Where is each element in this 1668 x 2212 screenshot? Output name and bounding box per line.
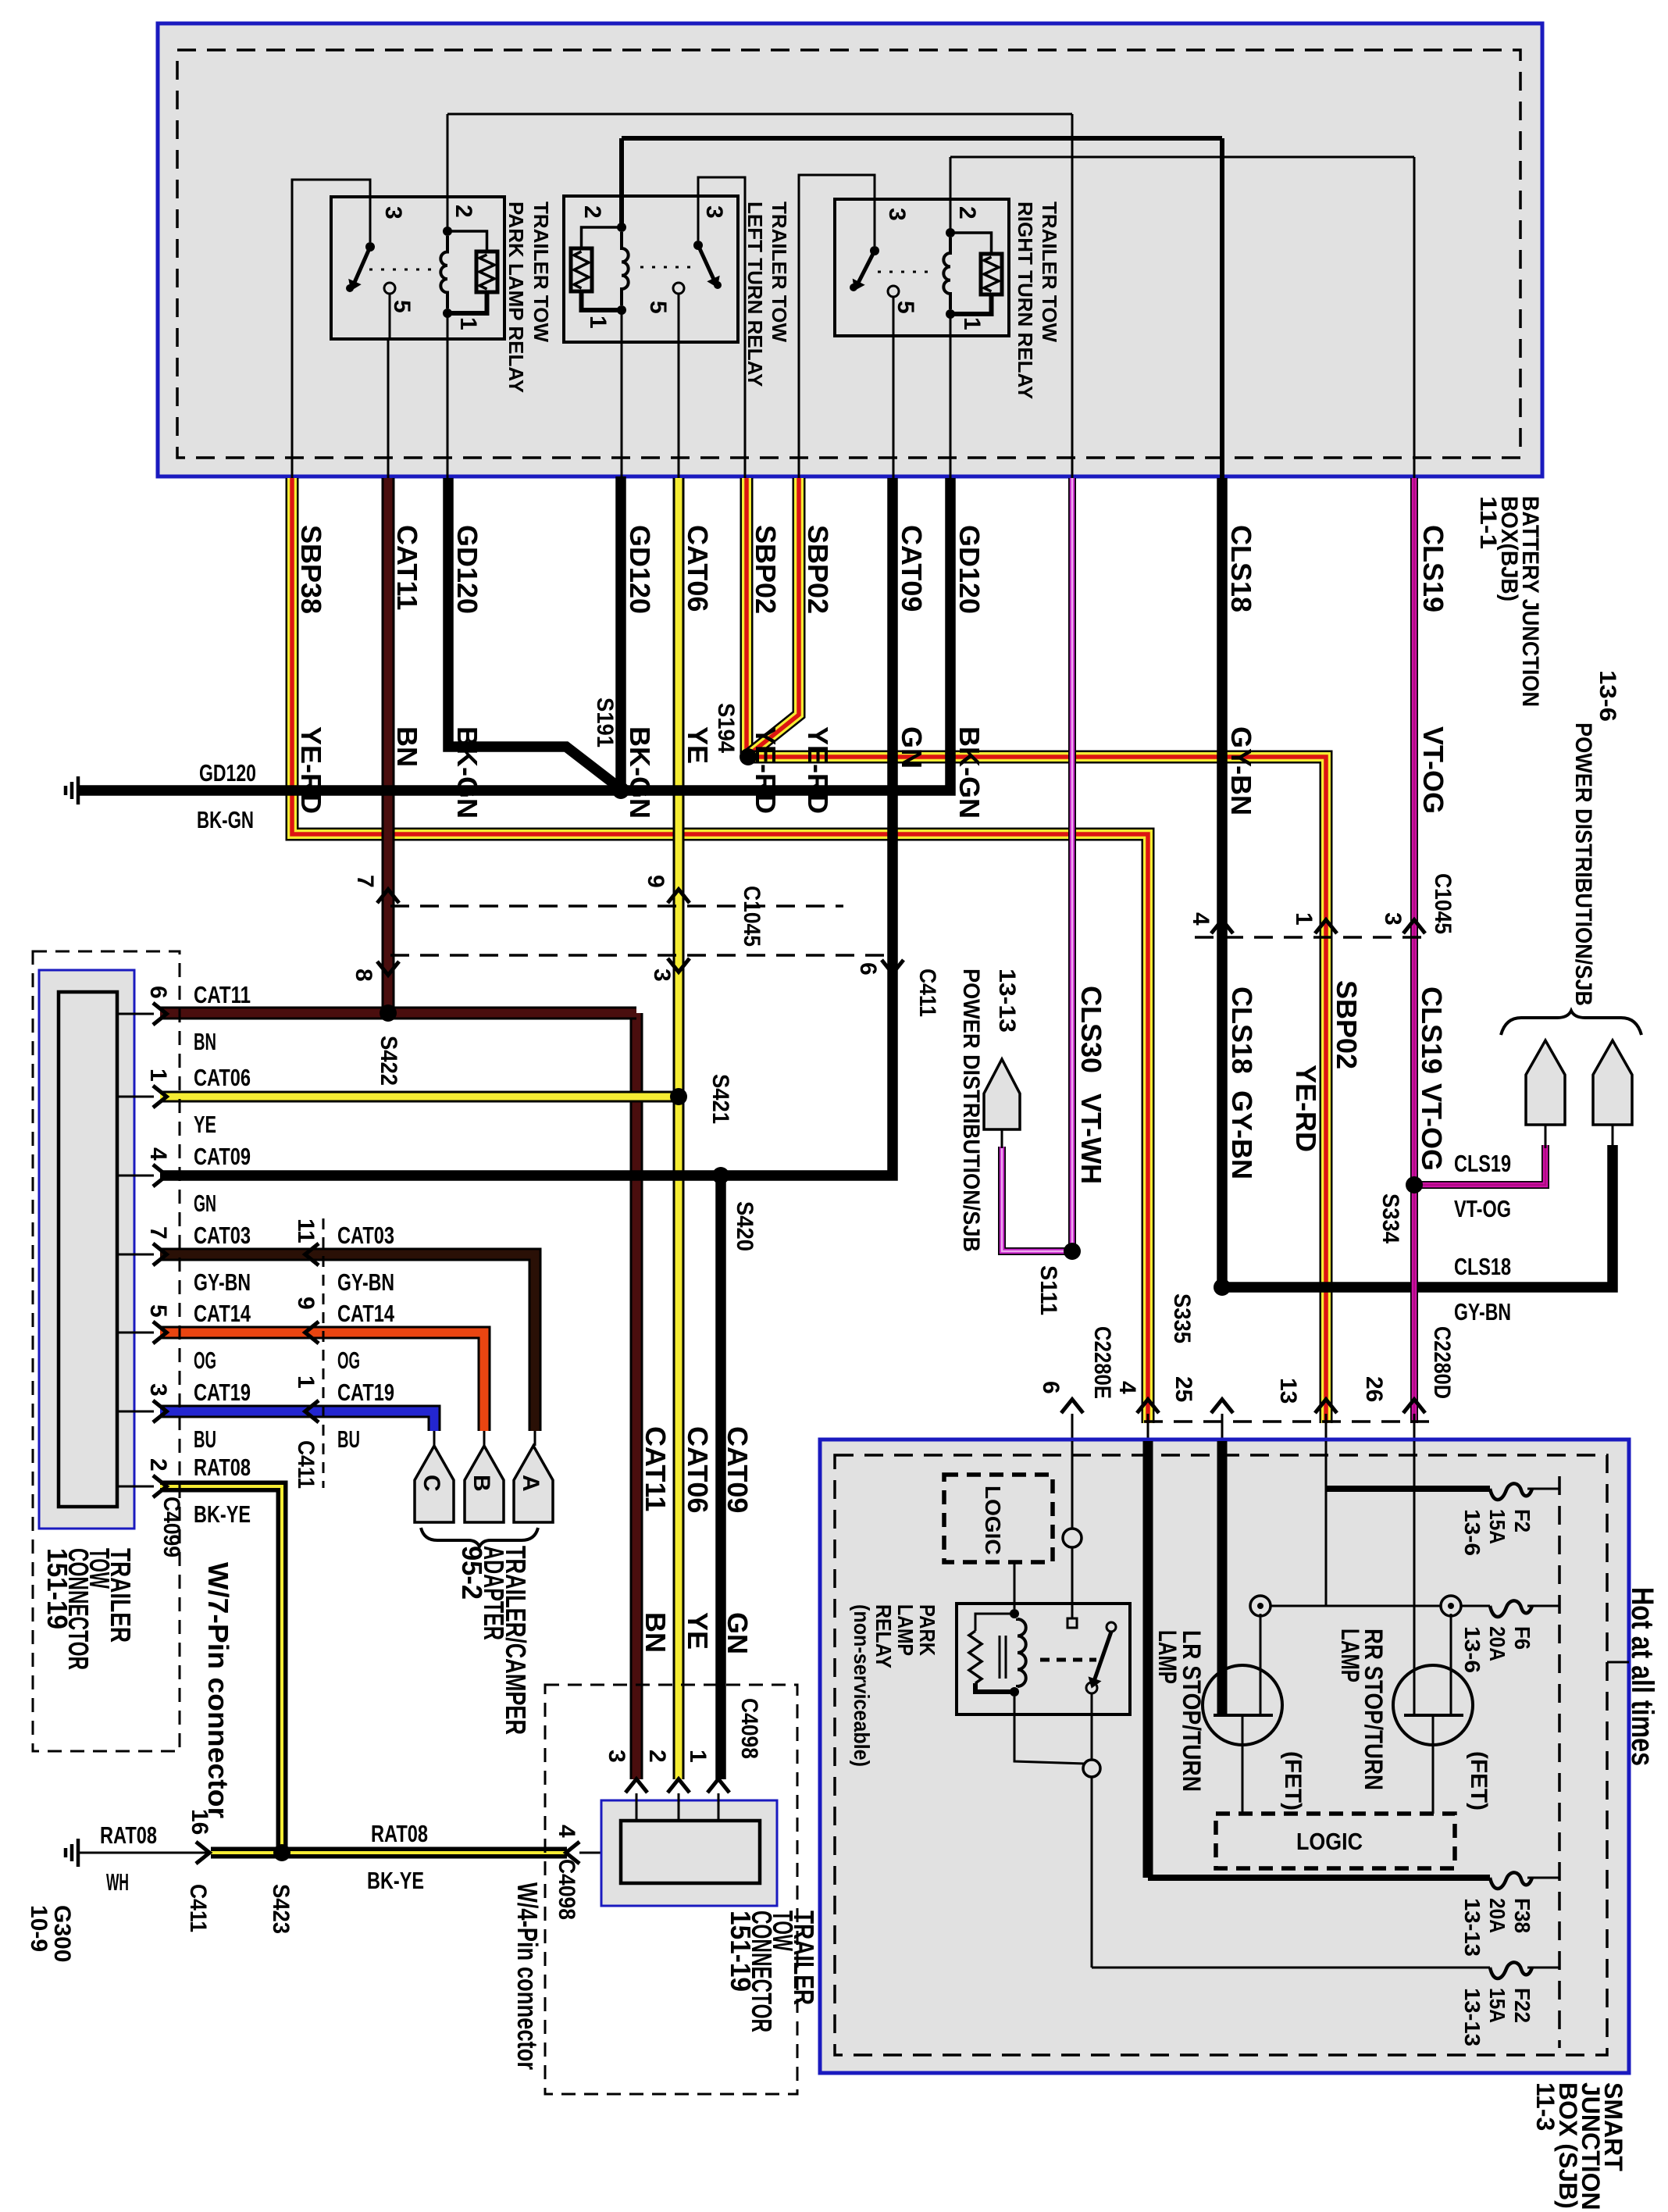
svg-text:GD120: GD120 xyxy=(451,525,483,614)
svg-text:CAT09: CAT09 xyxy=(194,1143,251,1170)
svg-text:4: 4 xyxy=(1188,912,1214,926)
svg-text:2: 2 xyxy=(451,205,476,218)
svg-text:3: 3 xyxy=(380,206,406,219)
svg-text:TRAILER/CAMPER: TRAILER/CAMPER xyxy=(500,1546,532,1735)
svg-text:LAMP: LAMP xyxy=(1153,1630,1181,1684)
svg-text:6: 6 xyxy=(1038,1381,1064,1394)
svg-text:CAT09: CAT09 xyxy=(896,525,928,612)
svg-text:C4098: C4098 xyxy=(736,1698,762,1759)
svg-text:13-6: 13-6 xyxy=(1460,1509,1484,1556)
svg-text:OG: OG xyxy=(337,1347,360,1374)
svg-text:CAT03: CAT03 xyxy=(194,1222,251,1249)
svg-text:GN: GN xyxy=(896,726,928,769)
svg-text:CAT14: CAT14 xyxy=(337,1300,395,1327)
svg-text:SBP38: SBP38 xyxy=(295,525,327,614)
svg-text:CLS19: CLS19 xyxy=(1416,986,1448,1074)
svg-text:SBP02: SBP02 xyxy=(1331,980,1363,1069)
svg-text:GN: GN xyxy=(722,1612,754,1654)
svg-text:1: 1 xyxy=(145,1069,171,1082)
svg-text:BN: BN xyxy=(194,1028,216,1055)
svg-text:(FET): (FET) xyxy=(1280,1751,1306,1811)
svg-text:11: 11 xyxy=(293,1218,319,1243)
svg-text:S335: S335 xyxy=(1169,1293,1195,1343)
svg-text:BU: BU xyxy=(194,1425,216,1453)
svg-text:PARK: PARK xyxy=(915,1604,939,1656)
svg-text:16: 16 xyxy=(187,1809,212,1835)
svg-text:3: 3 xyxy=(604,1750,629,1763)
svg-text:3: 3 xyxy=(1380,912,1406,926)
svg-text:VT-OG: VT-OG xyxy=(1454,1195,1511,1222)
svg-text:(non-serviceable): (non-serviceable) xyxy=(850,1604,874,1767)
svg-text:BN: BN xyxy=(640,1612,672,1653)
svg-text:5: 5 xyxy=(645,301,671,314)
svg-text:YE-RD: YE-RD xyxy=(750,726,782,814)
svg-text:S334: S334 xyxy=(1378,1193,1403,1243)
svg-text:TRAILER: TRAILER xyxy=(788,1911,820,2005)
svg-text:20A: 20A xyxy=(1485,1626,1509,1661)
svg-text:YE-RD: YE-RD xyxy=(295,726,327,814)
svg-text:RAT08: RAT08 xyxy=(100,1821,157,1849)
svg-text:BK-GN: BK-GN xyxy=(953,726,985,819)
svg-text:13-6: 13-6 xyxy=(1460,1626,1484,1673)
svg-text:Hot at all times: Hot at all times xyxy=(1625,1587,1659,1766)
svg-text:BN: BN xyxy=(391,726,423,767)
svg-text:YE: YE xyxy=(194,1111,216,1138)
svg-text:GY-BN: GY-BN xyxy=(1454,1298,1511,1325)
svg-text:TRAILER TOW: TRAILER TOW xyxy=(768,202,791,343)
svg-text:CAT14: CAT14 xyxy=(194,1300,251,1327)
svg-text:RELAY: RELAY xyxy=(871,1604,896,1668)
svg-text:13-6: 13-6 xyxy=(1595,670,1620,722)
svg-text:13-13: 13-13 xyxy=(1460,1988,1484,2046)
svg-text:26: 26 xyxy=(1361,1376,1387,1402)
svg-text:S191: S191 xyxy=(592,697,618,747)
svg-text:WH: WH xyxy=(106,1868,129,1896)
svg-text:GN: GN xyxy=(194,1190,216,1217)
svg-text:C1045: C1045 xyxy=(739,886,764,947)
svg-text:BU: BU xyxy=(337,1425,360,1453)
svg-text:A: A xyxy=(518,1475,544,1492)
svg-text:1: 1 xyxy=(959,317,985,330)
svg-text:8: 8 xyxy=(351,969,376,982)
svg-text:4: 4 xyxy=(145,1147,171,1161)
svg-text:G300: G300 xyxy=(49,1905,75,1962)
svg-text:GD120: GD120 xyxy=(953,525,985,614)
svg-text:6: 6 xyxy=(145,986,171,999)
svg-text:4: 4 xyxy=(554,1825,579,1838)
svg-text:VT-OG: VT-OG xyxy=(1416,1083,1448,1171)
svg-text:CAT06: CAT06 xyxy=(682,1426,714,1513)
svg-text:CAT19: CAT19 xyxy=(337,1379,394,1406)
svg-text:7: 7 xyxy=(352,875,378,888)
svg-text:CLS19: CLS19 xyxy=(1417,525,1449,612)
svg-text:13-13: 13-13 xyxy=(994,969,1020,1033)
svg-text:BK-YE: BK-YE xyxy=(194,1500,251,1528)
svg-text:C2280D: C2280D xyxy=(1429,1326,1455,1399)
svg-text:3: 3 xyxy=(884,208,910,221)
svg-text:20A: 20A xyxy=(1485,1898,1509,1933)
svg-text:S111: S111 xyxy=(1035,1265,1061,1315)
svg-text:W/7-Pin connector: W/7-Pin connector xyxy=(202,1562,234,1818)
svg-text:C411: C411 xyxy=(185,1884,211,1932)
svg-text:TRAILER: TRAILER xyxy=(105,1548,137,1643)
svg-text:GD120: GD120 xyxy=(199,759,256,787)
svg-text:C4098: C4098 xyxy=(554,1859,579,1920)
svg-text:VT-OG: VT-OG xyxy=(1417,726,1449,814)
svg-text:W/4-Pin connector: W/4-Pin connector xyxy=(511,1882,544,2070)
svg-text:GD120: GD120 xyxy=(624,525,656,614)
svg-text:BK-GN: BK-GN xyxy=(451,726,483,819)
svg-text:3: 3 xyxy=(145,1383,171,1397)
svg-text:RIGHT TURN RELAY: RIGHT TURN RELAY xyxy=(1014,202,1037,399)
svg-text:1: 1 xyxy=(685,1750,711,1763)
svg-text:13: 13 xyxy=(1275,1378,1301,1404)
svg-text:(FET): (FET) xyxy=(1466,1751,1492,1811)
svg-text:SBP02: SBP02 xyxy=(750,525,782,614)
svg-text:BK-GN: BK-GN xyxy=(197,806,254,833)
svg-text:15A: 15A xyxy=(1485,1509,1509,1544)
svg-text:C1045: C1045 xyxy=(1430,873,1456,934)
svg-text:TRAILER TOW: TRAILER TOW xyxy=(1038,202,1061,343)
svg-text:9: 9 xyxy=(643,875,668,888)
svg-text:POWER DISTRIBUTION/SJB: POWER DISTRIBUTION/SJB xyxy=(958,969,984,1252)
svg-text:S194: S194 xyxy=(713,703,739,753)
svg-text:2: 2 xyxy=(579,205,605,219)
svg-text:PARK LAMP RELAY: PARK LAMP RELAY xyxy=(504,202,528,393)
svg-text:LAMP: LAMP xyxy=(893,1604,918,1656)
svg-text:YE: YE xyxy=(682,726,714,764)
svg-text:F2: F2 xyxy=(1510,1509,1534,1532)
svg-text:RR STOP/TURN: RR STOP/TURN xyxy=(1360,1629,1388,1790)
svg-text:CLS19: CLS19 xyxy=(1454,1150,1511,1177)
svg-text:10-9: 10-9 xyxy=(26,1905,52,1952)
svg-text:1: 1 xyxy=(585,316,611,329)
svg-text:CLS18: CLS18 xyxy=(1226,986,1258,1074)
svg-text:1: 1 xyxy=(1291,912,1317,926)
svg-text:VT-WH: VT-WH xyxy=(1075,1094,1107,1184)
svg-text:3: 3 xyxy=(701,205,727,219)
svg-text:BK-GN: BK-GN xyxy=(624,726,656,819)
svg-text:5: 5 xyxy=(145,1304,171,1318)
svg-text:CAT09: CAT09 xyxy=(722,1426,754,1513)
svg-text:LOGIC: LOGIC xyxy=(1296,1828,1363,1855)
svg-text:2: 2 xyxy=(954,206,980,219)
svg-text:SMART: SMART xyxy=(1599,2082,1627,2171)
svg-text:25: 25 xyxy=(1171,1376,1196,1402)
svg-text:S423: S423 xyxy=(268,1884,294,1934)
svg-text:GY-BN: GY-BN xyxy=(1225,726,1257,815)
svg-text:YE-RD: YE-RD xyxy=(802,726,834,814)
svg-text:CLS30: CLS30 xyxy=(1075,986,1107,1073)
svg-text:9: 9 xyxy=(293,1297,319,1310)
svg-text:BATTERY JUNCTION: BATTERY JUNCTION xyxy=(1517,496,1543,707)
svg-text:2: 2 xyxy=(644,1750,670,1763)
svg-text:RAT08: RAT08 xyxy=(194,1454,251,1481)
svg-text:S422: S422 xyxy=(376,1036,401,1086)
svg-text:CAT11: CAT11 xyxy=(640,1426,672,1511)
svg-text:6: 6 xyxy=(855,962,881,976)
svg-text:S421: S421 xyxy=(707,1074,733,1124)
svg-text:RAT08: RAT08 xyxy=(371,1820,428,1847)
svg-text:7: 7 xyxy=(145,1226,171,1240)
svg-text:5: 5 xyxy=(893,301,918,314)
svg-text:F22: F22 xyxy=(1510,1988,1534,2023)
svg-text:CAT19: CAT19 xyxy=(194,1379,251,1406)
svg-text:F38: F38 xyxy=(1510,1898,1534,1933)
svg-text:LEFT TURN RELAY: LEFT TURN RELAY xyxy=(743,202,767,387)
svg-text:5: 5 xyxy=(389,300,415,313)
svg-text:C: C xyxy=(419,1475,444,1492)
svg-text:SBP02: SBP02 xyxy=(802,525,834,614)
svg-text:CAT03: CAT03 xyxy=(337,1222,394,1249)
svg-text:1: 1 xyxy=(455,317,481,330)
svg-text:POWER DISTRIBUTION/SJB: POWER DISTRIBUTION/SJB xyxy=(1570,722,1596,1006)
svg-text:1: 1 xyxy=(293,1375,319,1389)
svg-text:GY-BN: GY-BN xyxy=(1226,1090,1258,1179)
svg-text:C411: C411 xyxy=(293,1440,319,1489)
svg-text:TRAILER TOW: TRAILER TOW xyxy=(529,202,553,343)
svg-text:BK-YE: BK-YE xyxy=(367,1867,424,1894)
svg-text:13-13: 13-13 xyxy=(1460,1898,1484,1957)
svg-text:F6: F6 xyxy=(1510,1626,1534,1650)
svg-text:C4099: C4099 xyxy=(159,1497,184,1557)
svg-text:YE-RD: YE-RD xyxy=(1290,1065,1322,1152)
svg-text:CAT11: CAT11 xyxy=(391,525,423,610)
svg-text:CAT11: CAT11 xyxy=(194,981,251,1008)
svg-text:CAT06: CAT06 xyxy=(682,525,714,612)
svg-text:S420: S420 xyxy=(732,1201,757,1251)
svg-text:2: 2 xyxy=(145,1458,171,1472)
svg-text:CLS18: CLS18 xyxy=(1454,1253,1511,1280)
svg-text:LR STOP/TURN: LR STOP/TURN xyxy=(1178,1630,1206,1792)
svg-text:CLS18: CLS18 xyxy=(1225,525,1257,612)
svg-text:YE: YE xyxy=(682,1612,714,1650)
svg-text:GY-BN: GY-BN xyxy=(194,1268,251,1296)
svg-text:C411: C411 xyxy=(914,969,940,1017)
svg-text:LOGIC: LOGIC xyxy=(981,1486,1005,1555)
svg-text:C2280E: C2280E xyxy=(1089,1326,1115,1399)
svg-text:GY-BN: GY-BN xyxy=(337,1268,394,1296)
svg-text:4: 4 xyxy=(1114,1381,1140,1394)
svg-text:OG: OG xyxy=(194,1347,216,1374)
svg-text:CAT06: CAT06 xyxy=(194,1064,251,1091)
svg-text:B: B xyxy=(469,1475,494,1492)
svg-text:15A: 15A xyxy=(1485,1988,1509,2023)
svg-text:3: 3 xyxy=(649,969,675,982)
